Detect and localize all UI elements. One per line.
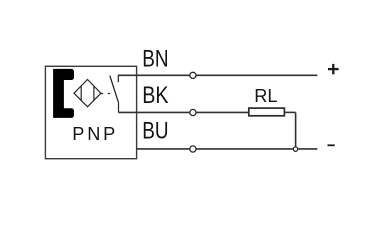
- svg-text:BU: BU: [142, 118, 168, 145]
- svg-text:BN: BN: [142, 45, 168, 72]
- sensor enclosure box: [45, 66, 136, 158]
- terminal circle BU: [190, 146, 196, 152]
- actuator dashed link: [101, 93, 111, 95]
- branch wire down: [295, 112, 297, 146]
- minus terminal: [328, 144, 335, 146]
- wire resistor to branch: [285, 111, 295, 113]
- junction circle: [293, 147, 297, 151]
- wire BU middle: [196, 148, 293, 150]
- wire BU right: [298, 148, 317, 150]
- switch moving arm: [110, 76, 119, 103]
- svg-text:RL: RL: [254, 86, 277, 106]
- resistor RL: [249, 108, 285, 116]
- diamond right chord: [93, 86, 95, 101]
- plus terminal: [328, 64, 339, 74]
- wire BN right: [196, 74, 317, 76]
- proximity-switch diamond: [74, 80, 101, 107]
- switch fixed contact stub: [117, 75, 119, 82]
- terminal circle BN: [190, 72, 196, 78]
- terminal circle BK: [190, 109, 196, 115]
- wire BK: [118, 111, 189, 113]
- wire BU: [137, 148, 190, 150]
- svg-text:PNP: PNP: [72, 124, 115, 144]
- wire BK to resistor: [196, 111, 248, 113]
- switch arm drop to BK: [118, 103, 120, 113]
- svg-text:BK: BK: [142, 82, 168, 109]
- wire BN: [118, 74, 190, 76]
- sensing-face bracket: [53, 69, 74, 118]
- diamond left chord: [80, 86, 82, 101]
